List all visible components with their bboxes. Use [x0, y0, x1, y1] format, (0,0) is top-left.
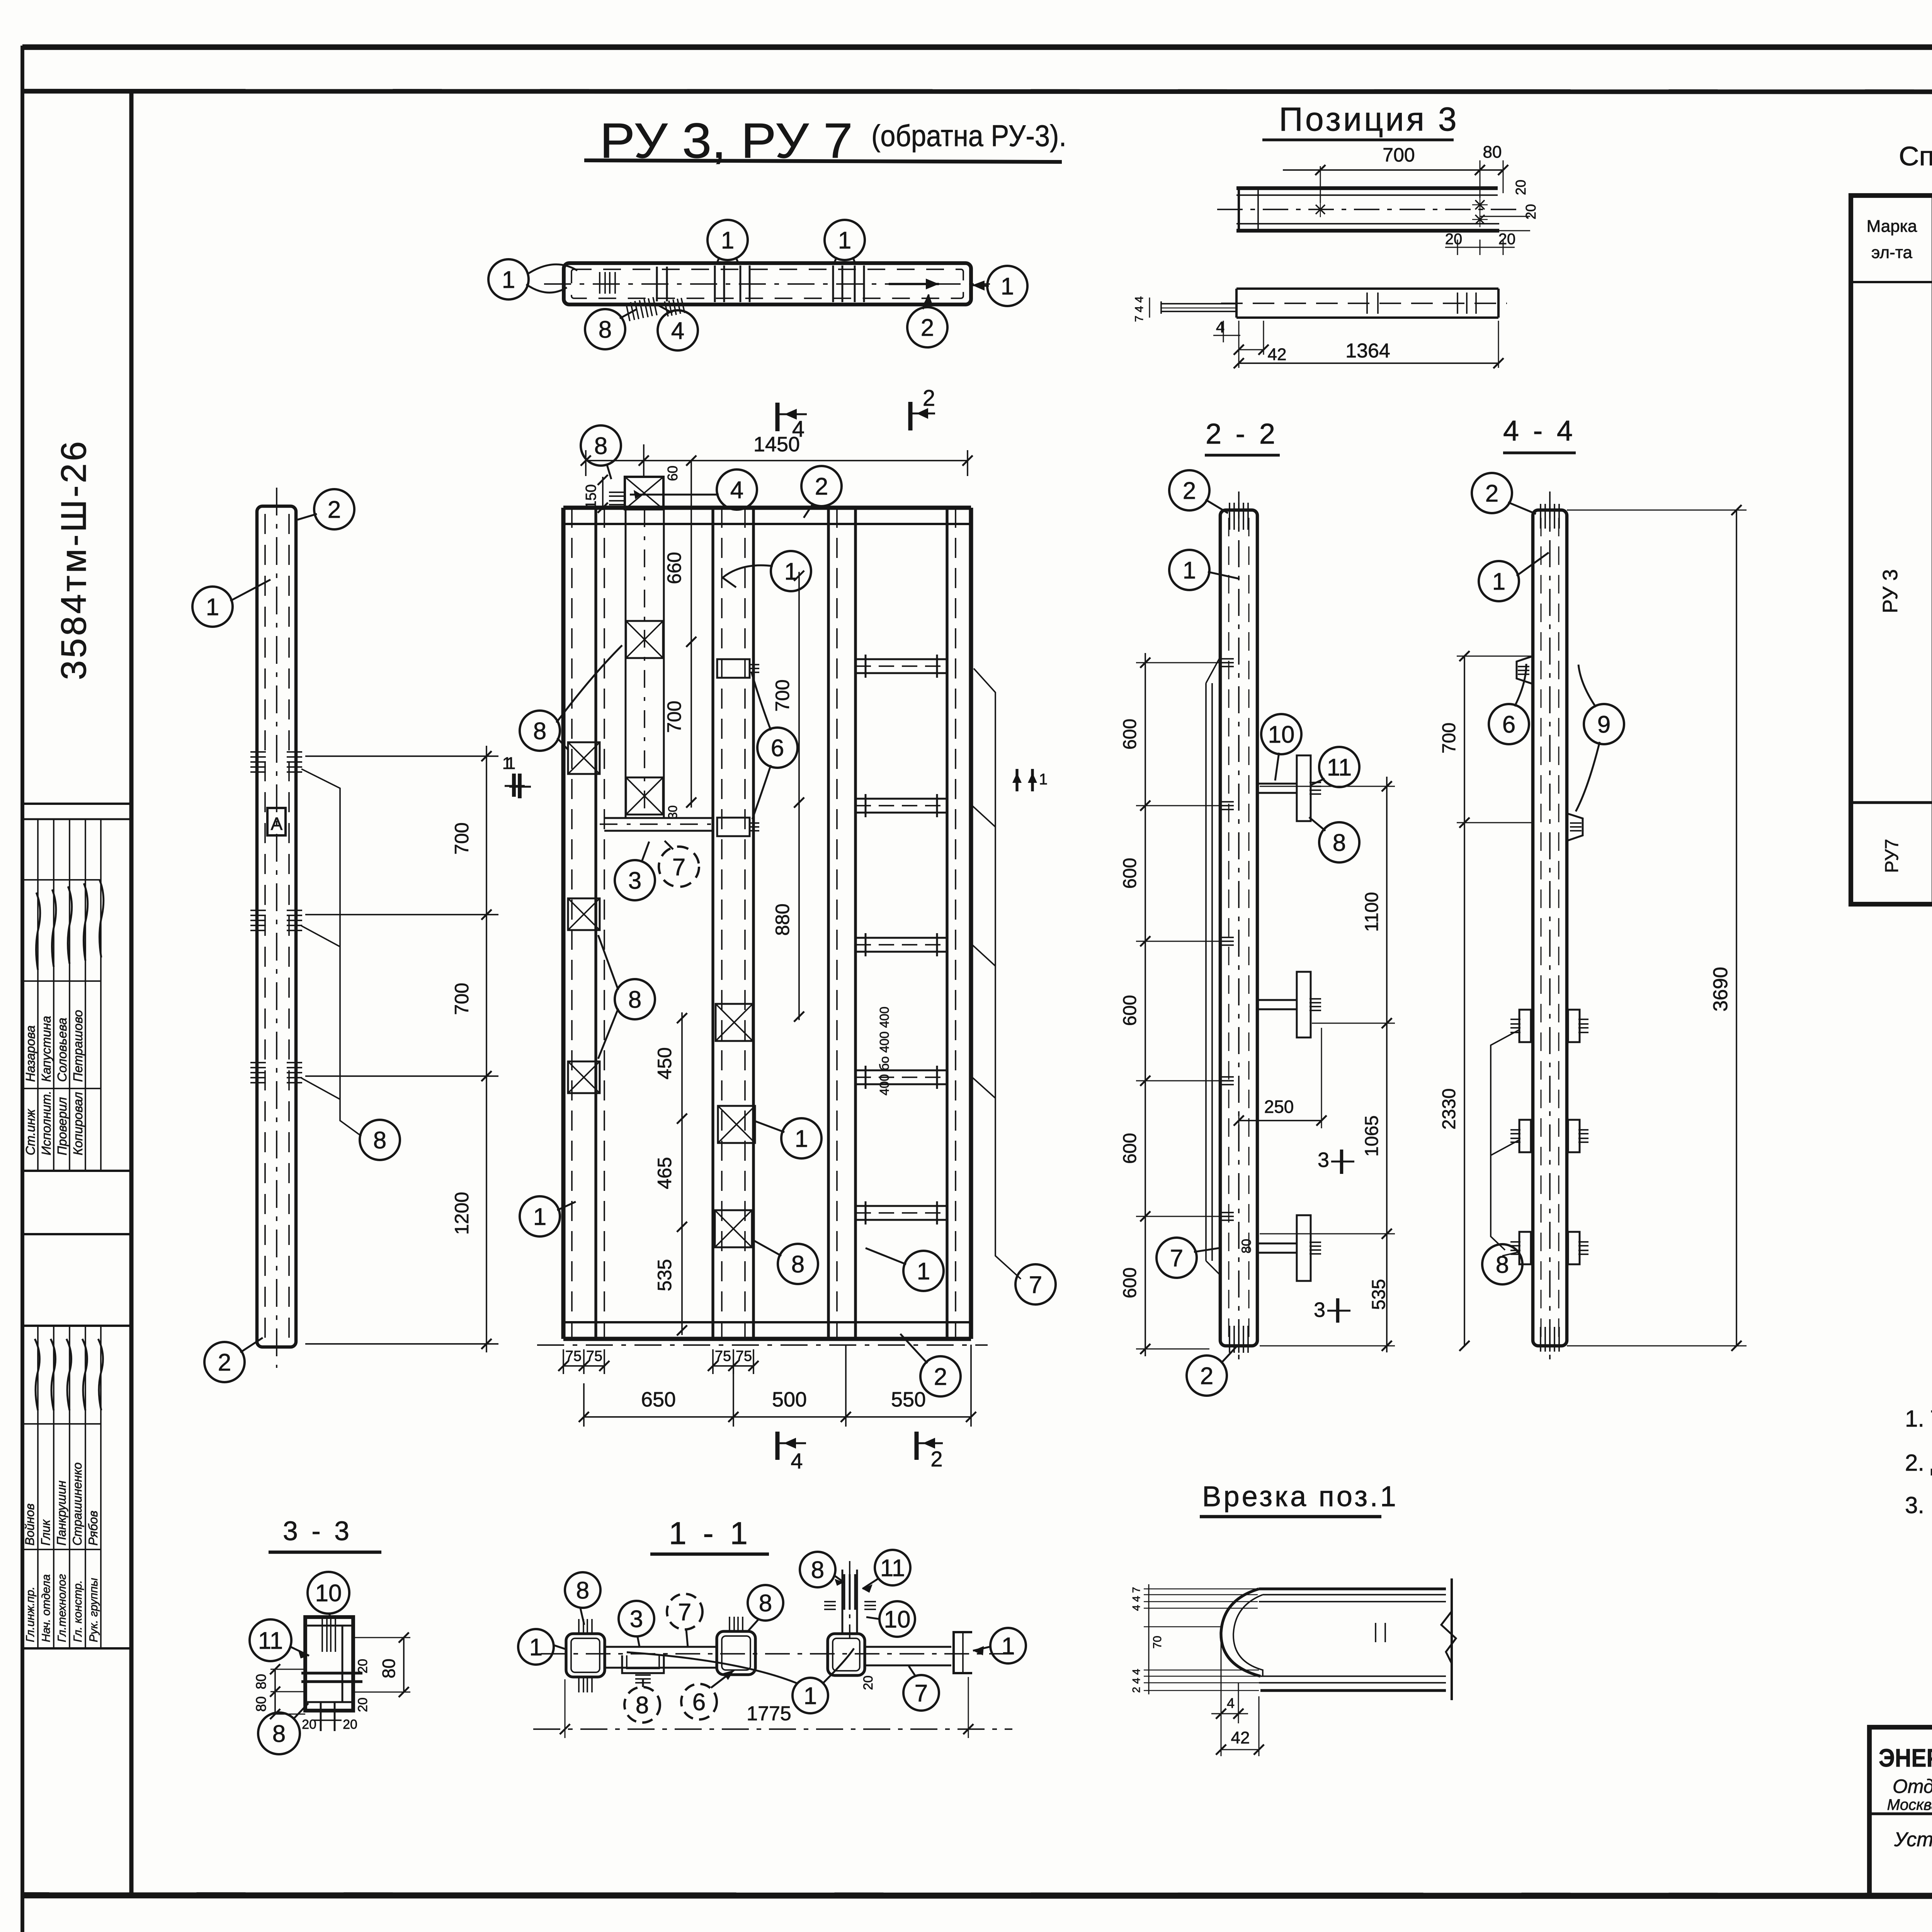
section 1-1 bolt stack поз.11/10 above box 3: [842, 1570, 844, 1634]
side view element поз.1 bar: [257, 506, 296, 1347]
svg-text:600: 600: [1120, 995, 1140, 1026]
callout 8 (side view welds): [360, 1120, 400, 1160]
svg-text:1. Толщина сварных швов: 1. Толщина сварных швов: [1905, 1406, 1932, 1432]
svg-text:Нач. отдела: Нач. отдела: [40, 1574, 53, 1642]
svg-text:535: 535: [654, 1259, 675, 1291]
callout 1 (plan view, second top): [825, 220, 865, 260]
section mark 2 (top): [908, 402, 913, 430]
svg-text:7: 7: [678, 1599, 691, 1626]
front view bottom chord inner line: [563, 1321, 971, 1323]
sheet outer border top: [22, 44, 1932, 50]
callout 3 (section 1-1): [619, 1601, 654, 1636]
svg-text:1: 1: [795, 1126, 808, 1152]
svg-text:2. Дыры: 2. Дыры: [1905, 1450, 1932, 1476]
callout 3 (front view ladder bottom): [615, 860, 655, 900]
svg-text:Петрашово: Петрашово: [71, 1010, 85, 1082]
svg-text:эл-та: эл-та: [1871, 243, 1912, 262]
svg-text:650: 650: [641, 1388, 676, 1411]
section 3-3 dim 80 right: [353, 1637, 410, 1638]
stamp table upper block frame: [22, 803, 131, 805]
callout 7 (section 2-2 bottom): [1156, 1238, 1197, 1278]
svg-text:2: 2: [934, 1364, 947, 1390]
svg-text:1: 1: [502, 754, 512, 773]
drawing frame top: [22, 91, 1932, 92]
svg-text:3584тм-Ш-26: 3584тм-Ш-26: [54, 439, 94, 680]
plan view bolt group left: [656, 267, 658, 301]
svg-text:20: 20: [355, 1659, 370, 1673]
svg-text:Глик: Глик: [39, 1519, 53, 1546]
callout 4 (front view top plate): [717, 469, 757, 510]
svg-text:550: 550: [891, 1388, 926, 1411]
svg-text:4: 4: [730, 477, 743, 503]
svg-text:20: 20: [1523, 204, 1539, 219]
callout 11 (section 3-3): [250, 1619, 291, 1661]
dim 75 75 (bottom middle pair): [712, 1349, 714, 1374]
врезка dim extension stack left: [1144, 1588, 1258, 1589]
weld plate on ladder strip (upper): [626, 621, 663, 658]
callout 8 (front view bottom middle): [778, 1244, 818, 1284]
поз.3 dim 7 4 4 (left stack): [1149, 298, 1150, 318]
svg-text:4 - 4: 4 - 4: [1503, 415, 1576, 447]
svg-text:20: 20: [343, 1717, 357, 1732]
svg-text:2330: 2330: [1439, 1088, 1459, 1130]
callout 7 (front view far right): [1015, 1264, 1056, 1304]
svg-text:1775: 1775: [747, 1702, 791, 1725]
svg-text:Ст.инж: Ст.инж: [23, 1109, 37, 1155]
section 3-3 weld scribble top: [335, 1619, 336, 1652]
callout 1 (side view): [192, 587, 233, 627]
front view inner ladder strip поз.2: [625, 509, 627, 818]
side view weld group bottom: [250, 1062, 266, 1063]
callout 1 (plan view, first top): [707, 220, 748, 260]
side view dim chain 700/700/1200: [486, 746, 487, 1352]
section 3-3 cross plate поз.11: [301, 1672, 362, 1674]
front view bottom centreline: [537, 1344, 988, 1346]
svg-text:75: 75: [715, 1348, 731, 1364]
svg-text:4: 4: [1216, 319, 1225, 336]
поз.3 left end section: [1238, 188, 1240, 231]
svg-text:465: 465: [654, 1157, 675, 1189]
svg-text:1: 1: [804, 1683, 817, 1709]
svg-text:60: 60: [665, 466, 680, 481]
svg-text:8: 8: [1333, 830, 1346, 856]
callout 1 (left of plan view): [488, 259, 529, 299]
section 4-4 dim 3690: [1567, 510, 1747, 511]
svg-text:Гл. констр.: Гл. констр.: [71, 1580, 84, 1642]
callout 8 (top of front view): [581, 425, 621, 466]
svg-text:1: 1: [917, 1258, 930, 1285]
svg-text:Исполнит.: Исполнит.: [39, 1091, 53, 1155]
section 3-3 bolt below: [320, 1702, 322, 1731]
section mark 4 (bottom): [776, 1432, 780, 1460]
sheet outer border left: [20, 46, 24, 1932]
svg-text:6: 6: [692, 1689, 706, 1716]
svg-text:Панкрушин: Панкрушин: [54, 1481, 68, 1546]
svg-text:2: 2: [1183, 478, 1196, 504]
callout 8 (plan view weld): [585, 309, 625, 349]
callout 6 (front view middle): [757, 728, 798, 768]
section 2-2 column поз.1: [1220, 510, 1257, 1346]
section 4-4 bolt plate groups: [1519, 1010, 1531, 1042]
callout 11 (section 2-2): [1319, 747, 1359, 787]
svg-text:Рябов: Рябов: [86, 1510, 100, 1546]
svg-text:Страшиненко: Страшиненко: [70, 1463, 84, 1546]
svg-text:ЭНЕРГОСЕТЬПРОЕКТ: ЭНЕРГОСЕТЬПРОЕКТ: [1879, 1743, 1932, 1772]
svg-text:600: 600: [1120, 1267, 1140, 1298]
поз.3 bolt symbols: [1316, 205, 1325, 214]
callout 7 (front view, dashed circle): [659, 847, 699, 887]
svg-text:700: 700: [772, 679, 793, 711]
svg-text:Соловьева: Соловьева: [55, 1018, 69, 1082]
svg-text:3. Клеймо: 3. Клеймо: [1905, 1492, 1932, 1518]
callout 1 (section 1-1 bottom centre): [793, 1678, 828, 1713]
поз.3 top view dashed centreline: [1221, 303, 1507, 304]
front view right column поз.2 flange lines: [946, 508, 948, 1339]
svg-text:Установка. синхронных: Установка. синхронных: [1894, 1828, 1932, 1851]
callout 9 (section 4-4): [1584, 704, 1624, 744]
section 2-2 bracket upper поз.10/11: [1257, 783, 1297, 785]
svg-text:6: 6: [1502, 711, 1515, 738]
svg-text:75: 75: [586, 1348, 602, 1364]
plan view bolt group right: [832, 265, 834, 302]
front view ladder bottom horizontal поз.3: [604, 817, 714, 819]
title block outer frame: [1869, 1727, 1932, 1896]
svg-text:2: 2: [815, 473, 828, 500]
svg-text:70: 70: [1151, 1636, 1164, 1648]
section 3-3 channel поз.10 body: [305, 1617, 353, 1711]
svg-text:1: 1: [838, 227, 851, 254]
svg-text:1065: 1065: [1362, 1116, 1382, 1157]
side view weld group middle: [250, 910, 266, 911]
callout 1 (section 2-2): [1169, 550, 1209, 590]
поз.3 top view outline: [1236, 287, 1498, 290]
врезка beam bottom flange: [1260, 1675, 1446, 1677]
section 1-1 box 2 (middle поз.1): [717, 1631, 755, 1675]
callout 2 (side view bottom): [204, 1342, 245, 1382]
front view small top plate поз.4: [625, 477, 663, 509]
врезка beam top flange: [1259, 1587, 1446, 1590]
callout 8 (section 4-4): [1482, 1244, 1522, 1284]
callout 10 (section 2-2): [1261, 714, 1301, 754]
svg-text:3 - 3: 3 - 3: [283, 1516, 352, 1546]
поз.3 dims 20 20 bottom: [1457, 240, 1458, 255]
svg-text:20: 20: [302, 1717, 316, 1732]
section 4-4 ear plate right поз.9: [1567, 813, 1583, 841]
svg-text:1: 1: [206, 594, 219, 621]
callout 4 (plan view): [658, 310, 698, 350]
spec table РУ3/РУ7 divider: [1851, 801, 1932, 804]
svg-text:700: 700: [1383, 144, 1415, 166]
plan view bolt group middle: [714, 265, 716, 302]
dim 150 (top left): [602, 477, 604, 510]
svg-text:А: А: [271, 814, 283, 834]
svg-text:РУ 3: РУ 3: [1879, 569, 1902, 613]
callout 8 (front view left lower): [615, 979, 655, 1019]
callout 1 (front view right bottom): [903, 1251, 944, 1291]
svg-text:20: 20: [1445, 231, 1463, 248]
svg-text:10: 10: [884, 1606, 911, 1633]
front view dim 1450: [585, 450, 587, 476]
callout 1 (section 1-1 left): [518, 1629, 554, 1665]
svg-text:20: 20: [861, 1675, 876, 1690]
svg-text:2: 2: [1485, 480, 1498, 507]
svg-text:(обратна РУ-3).: (обратна РУ-3).: [871, 119, 1066, 153]
svg-text:8: 8: [811, 1557, 824, 1583]
svg-text:10: 10: [315, 1580, 342, 1607]
section 1-1 channel between поз.3: [605, 1646, 717, 1648]
svg-text:7: 7: [672, 854, 685, 881]
поз.3 small dims 20 20 right: [1480, 216, 1530, 217]
svg-text:1: 1: [1002, 1633, 1015, 1660]
svg-text:3690: 3690: [1709, 967, 1732, 1012]
врезка dims 4 / 42: [1221, 1638, 1222, 1756]
svg-text:80: 80: [379, 1658, 399, 1678]
svg-text:Врезка поз.1: Врезка поз.1: [1202, 1480, 1398, 1512]
small plates поз.6 on middle column: [717, 659, 750, 678]
врезка right end bar with break: [1451, 1578, 1453, 1700]
svg-text:8: 8: [759, 1590, 772, 1617]
stamp table middle divider lines: [22, 1233, 131, 1235]
callout 8 (section 1-1 top left): [565, 1572, 600, 1608]
mark A box on side view: [267, 808, 286, 835]
svg-text:1364: 1364: [1345, 340, 1390, 362]
section 3-3 dims 80 80 left: [270, 1669, 305, 1670]
callout 2 (section 2-2 bottom): [1187, 1355, 1227, 1396]
svg-text:660: 660: [663, 552, 685, 584]
svg-text:700: 700: [451, 822, 473, 854]
section 4-4 left dims 700 / 2330: [1457, 656, 1533, 657]
callout 8 (section 2-2): [1319, 822, 1359, 862]
svg-text:700: 700: [451, 983, 473, 1015]
section 3 mark upper: [1340, 1150, 1344, 1174]
dim 75 75 (bottom left pair): [563, 1349, 564, 1374]
callout 6 (section 1-1 bottom, dashed): [681, 1684, 717, 1719]
svg-text:3: 3: [1314, 1298, 1325, 1321]
svg-text:75: 75: [736, 1348, 752, 1364]
svg-text:8: 8: [272, 1721, 286, 1747]
врезка bolt mark: [1375, 1623, 1376, 1642]
svg-text:8: 8: [576, 1577, 589, 1604]
section mark 2 (bottom): [915, 1432, 919, 1460]
section mark 1 (left, mid height): [518, 774, 522, 798]
svg-text:700: 700: [1439, 723, 1459, 753]
svg-text:Отдел Дальних Передач: Отдел Дальних Передач: [1893, 1776, 1932, 1797]
svg-text:700: 700: [663, 701, 685, 733]
svg-text:880: 880: [772, 903, 793, 935]
callout 2 (plan view): [907, 307, 947, 347]
svg-text:535: 535: [1369, 1279, 1389, 1310]
weld plate on ladder strip (lower): [626, 777, 663, 815]
svg-text:2: 2: [923, 386, 935, 411]
spec table outer frame: [1851, 196, 1932, 904]
stamp strip inner vertical: [129, 91, 134, 1896]
svg-text:Войнов: Войнов: [23, 1503, 37, 1546]
svg-text:450: 450: [654, 1047, 675, 1079]
callout 2 (side view top): [314, 489, 354, 529]
interior dim chain upper (660/700): [690, 461, 692, 808]
поз.3 dim 700 / 80: [1320, 166, 1321, 203]
front view bottom dim chain 650/500/550: [583, 1383, 585, 1427]
поз.3 dim 4 / 42 / 1364: [1223, 321, 1224, 342]
svg-text:1: 1: [1183, 557, 1196, 584]
weld plates on middle column: [716, 1004, 753, 1041]
svg-text:1: 1: [533, 1204, 546, 1230]
svg-text:3: 3: [1318, 1148, 1329, 1172]
svg-text:4 4 7: 4 4 7: [1130, 1587, 1142, 1611]
svg-text:1200: 1200: [451, 1192, 473, 1235]
callout 2 (front view top): [801, 466, 842, 506]
svg-text:80: 80: [253, 1674, 269, 1689]
svg-text:600: 600: [1120, 719, 1140, 750]
svg-text:42: 42: [1268, 345, 1287, 364]
callout 7 (section 1-1 upper, dashed): [667, 1594, 702, 1629]
leader chain to callout 7 (right side): [974, 668, 1021, 1279]
interior dim chain middle (700/880): [798, 572, 800, 1020]
stamp table upper block signatures: [36, 893, 40, 970]
front view middle column поз.1 flange lines: [711, 508, 714, 1339]
side view leader chain to callout 8: [301, 769, 361, 1136]
svg-text:11: 11: [258, 1628, 283, 1654]
plan view element поз.1 outline: [564, 263, 971, 304]
section 2-2 dim chain 1100/1065/535: [1386, 777, 1388, 1352]
svg-text:250: 250: [1264, 1097, 1294, 1117]
svg-text:Позиция 3: Позиция 3: [1279, 101, 1459, 138]
svg-text:30: 30: [666, 805, 680, 819]
plan view direction arrow: [889, 283, 939, 285]
svg-text:Капустина: Капустина: [39, 1016, 53, 1082]
callout 1 (front view centre lower): [781, 1118, 821, 1158]
svg-text:Москва: Москва: [1887, 1796, 1932, 1813]
section 4-4 ear plate upper left поз.6: [1517, 656, 1533, 684]
svg-text:400 бо 400 400: 400 бо 400 400: [877, 1007, 891, 1095]
section 2-2 weld marks on column: [1221, 658, 1234, 660]
svg-text:1 - 1: 1 - 1: [669, 1516, 752, 1551]
svg-text:80: 80: [1483, 143, 1502, 162]
svg-text:4: 4: [671, 318, 684, 344]
svg-text:2 4 4: 2 4 4: [1130, 1669, 1142, 1693]
svg-text:75: 75: [565, 1348, 582, 1364]
plan view centreline: [544, 283, 990, 285]
svg-text:Проверил: Проверил: [55, 1097, 69, 1155]
svg-text:8: 8: [594, 433, 607, 459]
svg-text:9: 9: [1597, 711, 1611, 738]
врезка notch curve: [1221, 1589, 1260, 1676]
svg-text:8: 8: [628, 986, 641, 1013]
callout 6 (section 4-4): [1489, 704, 1529, 744]
interior dim chain lower (450/465/535): [681, 1012, 683, 1335]
section 2-2 left dim chain 600 x5: [1145, 653, 1146, 1356]
svg-text:8: 8: [1496, 1252, 1509, 1278]
svg-text:7 4 4: 7 4 4: [1133, 296, 1146, 322]
stamp table lower block signatures: [35, 1339, 40, 1410]
svg-text:2 - 2: 2 - 2: [1206, 418, 1278, 450]
plan view weld seam hatch поз.8/4: [653, 297, 657, 315]
callout 1 (section 4-4): [1479, 561, 1519, 601]
поз.3 top view weld tail left: [1161, 303, 1236, 304]
svg-text:Гл.технолог: Гл.технолог: [56, 1574, 68, 1642]
section 1-1 dim 1775: [565, 1679, 566, 1738]
svg-text:1: 1: [721, 227, 734, 254]
callout 1 (front view left bottom): [520, 1196, 560, 1236]
title block col1 line: [1869, 1812, 1932, 1815]
front view left column поз.1 flange lines: [571, 508, 573, 1339]
svg-text:2: 2: [328, 497, 341, 523]
svg-text:8: 8: [636, 1692, 649, 1719]
stamp table lower block frame: [22, 1647, 131, 1650]
side view weld group top: [250, 751, 266, 753]
svg-text:1: 1: [1492, 568, 1505, 595]
svg-text:10: 10: [1268, 721, 1295, 748]
svg-text:1100: 1100: [1362, 892, 1382, 932]
svg-text:Гл.инж.пр.: Гл.инж.пр.: [24, 1587, 37, 1642]
svg-text:600: 600: [1120, 1133, 1140, 1164]
callout 8 (section 1-1 bottom left, dashed): [624, 1687, 660, 1723]
section 1-1 right strip and end channel: [865, 1646, 951, 1648]
svg-text:8: 8: [373, 1127, 386, 1154]
section 2-2 dim 250: [1238, 1113, 1240, 1128]
поз.3 top view bolt marks: [1366, 293, 1368, 314]
svg-text:11: 11: [880, 1555, 905, 1582]
svg-text:8: 8: [599, 316, 612, 343]
svg-text:4: 4: [1227, 1695, 1235, 1711]
svg-text:11: 11: [1327, 754, 1352, 781]
front view third column поз.1 flange lines: [827, 508, 830, 1339]
section 2-2 bracket middle: [1257, 999, 1297, 1001]
section 2-2 gusset strip left: [1205, 683, 1207, 1261]
section mark 1 (upper, near dim chain): [512, 774, 516, 797]
поз.3 channel side view top flange: [1236, 186, 1498, 190]
callout 1 (section 1-1 right): [990, 1628, 1026, 1663]
svg-text:80: 80: [1239, 1239, 1254, 1253]
svg-text:1: 1: [784, 558, 798, 585]
callout 1 (front view upper middle): [771, 551, 811, 591]
callout 2 (section 4-4): [1472, 473, 1512, 513]
svg-text:4: 4: [791, 1449, 803, 1473]
svg-text:Рук. группы: Рук. группы: [87, 1578, 100, 1642]
svg-text:2: 2: [921, 315, 934, 341]
svg-text:2: 2: [218, 1349, 231, 1376]
svg-text:150: 150: [583, 484, 599, 509]
callout 8 (section 1-1 above bolt): [800, 1552, 835, 1587]
svg-text:1: 1: [502, 267, 515, 293]
svg-text:РУ7: РУ7: [1882, 839, 1902, 873]
поз.3 channel side view bottom flange: [1236, 223, 1499, 224]
svg-text:7: 7: [1029, 1272, 1042, 1298]
section marks 1 1 (right, mid height): [1015, 769, 1018, 791]
svg-text:42: 42: [1231, 1728, 1250, 1747]
svg-text:20: 20: [1513, 180, 1529, 195]
svg-text:2: 2: [930, 1447, 942, 1471]
svg-text:3: 3: [628, 867, 641, 894]
svg-text:6: 6: [771, 735, 784, 762]
svg-text:7: 7: [1170, 1245, 1183, 1272]
weld plates on left column: [568, 742, 600, 774]
svg-text:1450: 1450: [753, 433, 800, 456]
front view right bay rungs поз.1 horizontals: [855, 658, 947, 660]
callout 8 (section 3-3): [258, 1713, 300, 1754]
spec table vertical lines: [1932, 196, 1932, 904]
section mark 4 (top): [776, 403, 780, 431]
callout 2 (section 2-2 top): [1169, 470, 1209, 510]
leader chain to callout 8 (section 4-4): [1491, 1030, 1519, 1250]
drawing frame bottom: [22, 1895, 1932, 1896]
svg-text:Марка: Марка: [1867, 217, 1917, 236]
callout 8 (front view left): [520, 711, 560, 751]
side view centreline: [276, 488, 277, 1368]
front view top chord inner line: [563, 523, 971, 525]
callout 11 (section 1-1): [875, 1550, 910, 1585]
svg-text:500: 500: [772, 1388, 807, 1411]
